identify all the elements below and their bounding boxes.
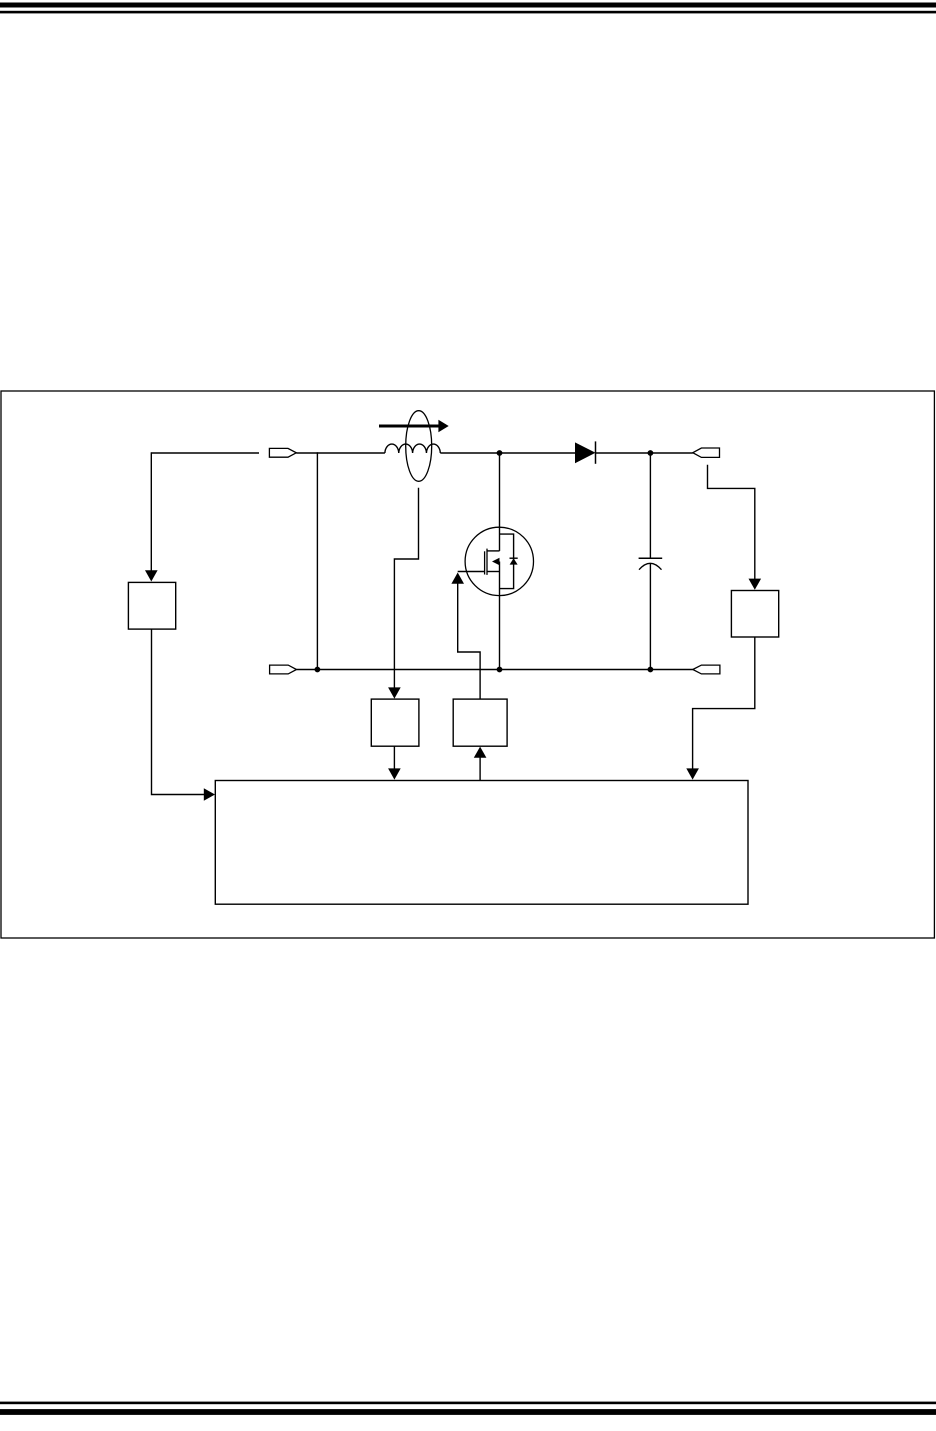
junction dot bottom bus left (315, 667, 321, 673)
current direction arrow (379, 420, 449, 432)
arrowhead into controller from feedback (686, 768, 699, 779)
wire top bus left segment (151, 452, 259, 454)
arrowhead into gate driver bottom (474, 747, 487, 758)
wire tag to inductor (296, 452, 385, 454)
MOSFET gate wire (458, 571, 485, 573)
MOSFET body diode branch (500, 534, 514, 589)
diode D cathode bar (595, 441, 597, 463)
wire current sense block to controller (393, 746, 395, 769)
controller block (215, 781, 748, 905)
current sense ellipse CT (406, 411, 432, 482)
wire sense block to controller (152, 629, 205, 794)
capacitor C bottom wire (649, 564, 651, 670)
arrowhead into left block top (145, 570, 158, 581)
figure frame (1, 391, 934, 938)
wire CT tap to current sense block (394, 488, 418, 688)
wire controller to gate driver (479, 757, 481, 780)
connector tag return bottom right (693, 665, 720, 674)
footer thick rule (0, 1409, 936, 1415)
gate driver block (453, 699, 507, 746)
connector tag return bottom left (270, 665, 297, 674)
output capacitor C top wire (649, 453, 651, 558)
footer thin rule (0, 1402, 936, 1405)
wire left vertical drop (150, 452, 152, 571)
MOSFET channel bar (486, 549, 488, 575)
capacitor C curved plate (639, 563, 662, 569)
MOSFET Q body circle (465, 527, 533, 595)
current sense block (371, 699, 419, 746)
MOSFET source wire to bottom bus (499, 562, 501, 670)
MOSFET drain wire (499, 453, 501, 551)
capacitor C flat plate (639, 557, 663, 559)
junction dot output node top (648, 450, 654, 456)
MOSFET gate bar (484, 551, 486, 574)
body diode cathode bar (510, 557, 518, 559)
connector tag AC input top (269, 448, 296, 457)
arrowhead into controller left (204, 788, 215, 801)
wire gate driver to gate (458, 583, 480, 699)
diode D anode triangle (575, 442, 596, 463)
body diode triangle (510, 558, 518, 564)
MOSFET body arrow (492, 558, 500, 566)
inductor L (385, 444, 440, 453)
arrowhead into gate (451, 573, 464, 584)
wire output tag to feedback block (708, 465, 755, 579)
header thin rule (0, 11, 936, 14)
wire diode to output tag (596, 452, 693, 454)
arrowhead into controller from current sense (388, 768, 401, 779)
MOSFET source stub (487, 571, 500, 573)
junction dot drain node top (497, 450, 503, 456)
feedback block (731, 591, 778, 638)
junction dot MOSFET source on bus (497, 667, 503, 673)
header thick rule (0, 3, 936, 8)
wire inductor to diode (440, 452, 575, 454)
junction dot capacitor on bus (648, 667, 654, 673)
input voltage sense block (128, 582, 175, 629)
arrowhead into feedback block (749, 579, 762, 590)
wire input return vertical (316, 452, 318, 669)
wire feedback block to controller (693, 637, 755, 769)
connector tag output top (693, 448, 720, 457)
arrowhead into current sense block (388, 687, 401, 698)
bottom return bus (297, 669, 693, 671)
MOSFET drain stub (487, 550, 500, 552)
